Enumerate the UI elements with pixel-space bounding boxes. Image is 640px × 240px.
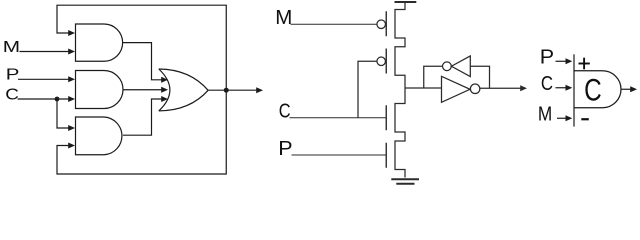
svg-text:P: P (278, 138, 292, 160)
PMOS Q1 gate bar (385, 11, 387, 36)
OR gate O1 (159, 69, 208, 111)
arrowhead feedback into AND A1 (68, 30, 75, 36)
arrowhead M into AND A1 (68, 49, 75, 55)
arrowhead M into symbol (566, 115, 573, 121)
input label P (6, 65, 20, 83)
VDD rail bar (395, 1, 417, 3)
svg-text:P: P (540, 46, 554, 68)
arrowhead A2 into OR O1 (161, 87, 168, 93)
wire C to gate of NMOS Q3 (290, 117, 386, 119)
NMOS Q3 gate bar (385, 105, 387, 130)
arrowhead symbol output (630, 86, 637, 92)
wire AND A1 output to OR O1 (123, 43, 162, 80)
input label C (symbol) (541, 71, 553, 94)
input label C (transistor stage) (279, 99, 291, 122)
symbol input stem line (573, 54, 575, 126)
wire C input of symbol (556, 87, 567, 89)
arrowhead transistor stage output (520, 85, 527, 91)
arrowhead A1 into OR O1 (161, 77, 168, 83)
wire C branch to gate of PMOS Q2 (358, 61, 377, 117)
input label M (3, 37, 20, 55)
inverter U2 (east facing) (442, 76, 471, 102)
wire input M (20, 51, 70, 53)
arrowhead C branch into AND A3 (68, 125, 75, 131)
wire P to gate of NMOS Q4 (292, 154, 386, 156)
wire P input of symbol (556, 60, 567, 62)
label C inside symbol (584, 71, 602, 107)
svg-text:C: C (541, 71, 553, 94)
wire OR O1 output (208, 89, 256, 91)
AND gate A2 (76, 71, 124, 109)
arrowhead P into AND A2 (68, 76, 75, 82)
wire input C (18, 98, 70, 100)
PMOS Q2 bubble (377, 57, 386, 66)
input label M (symbol) (538, 103, 552, 126)
arrowhead C into symbol (566, 85, 573, 91)
AND gate A3 (76, 117, 122, 155)
svg-text:M: M (538, 103, 552, 126)
arrowhead circuit output (256, 87, 263, 93)
PMOS Q1 bubble (377, 20, 386, 29)
svg-text:M: M (275, 6, 292, 29)
input label M (transistor stage) (275, 6, 292, 29)
junction dot on output at box border (224, 88, 229, 93)
keeper inverter U1 bubble (443, 62, 452, 71)
wire symbol output (621, 88, 631, 90)
AND gate A1 (76, 24, 123, 61)
wire M input of symbol (557, 117, 567, 119)
plus mark on P input (579, 58, 590, 70)
junction dot on C input (55, 97, 60, 102)
PMOS Q2 gate bar (385, 49, 387, 74)
C-element symbol body U3 (574, 71, 621, 108)
enclosure box of gate-level C-element (57, 5, 226, 174)
wire C branch to AND A3 (57, 99, 69, 128)
input label P (symbol) (540, 46, 554, 68)
wire inverter U2 output (480, 87, 521, 89)
wire AND A3 output to OR O1 (123, 99, 162, 135)
wire output node to inverter U2 (405, 87, 442, 89)
arrowhead C into AND A2 (68, 96, 75, 102)
arrowhead A3 into OR O1 (161, 96, 168, 102)
ground symbol (391, 179, 419, 184)
NMOS Q4 gate bar (385, 143, 387, 168)
svg-text:C: C (279, 99, 291, 122)
wire M gate of PMOS Q1 (291, 23, 378, 25)
wire input P (18, 78, 69, 80)
minus mark on M input (581, 118, 589, 120)
svg-text:P: P (6, 65, 20, 83)
svg-text:C: C (584, 71, 602, 107)
source-drain chain wire (395, 2, 405, 178)
wire keeper U1 input from output node (470, 66, 489, 88)
arrowhead feedback into AND A3 (68, 143, 75, 149)
input label C (5, 85, 19, 103)
input label P (transistor stage) (278, 138, 292, 160)
wire AND A2 output to OR O1 (123, 89, 162, 91)
arrowhead P into symbol (566, 58, 573, 64)
svg-text:M: M (3, 37, 20, 55)
inverter U2 bubble (470, 84, 480, 94)
keeper inverter U1 (west facing) (451, 56, 470, 77)
wire node branch to keeper U1 output (424, 66, 443, 88)
svg-text:C: C (5, 85, 19, 103)
